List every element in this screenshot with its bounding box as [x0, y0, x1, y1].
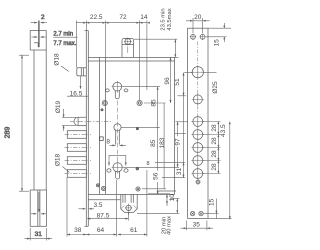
top tab circle: [125, 39, 131, 45]
top latch tab: [122, 38, 134, 57]
dim 35: [187, 227, 207, 229]
svg-text:43.5: 43.5: [220, 124, 227, 137]
5 bolt holes: [193, 117, 203, 179]
dim 10: [148, 193, 170, 195]
svg-text:Ø25: Ø25: [212, 81, 219, 94]
follower dim 8: [110, 144, 127, 146]
case rect: [88, 56, 174, 58]
side view faceplate line: [38, 21, 40, 48]
svg-text:10: 10: [169, 194, 176, 202]
side view bottom faceplate pair: [38, 190, 40, 226]
svg-text:183: 183: [159, 137, 166, 148]
follower: [114, 124, 121, 131]
svg-text:15: 15: [209, 198, 216, 206]
ext follower centerline: [121, 126, 159, 128]
svg-text:23.5 min: 23.5 min: [161, 8, 167, 30]
svg-text:16.5: 16.5: [70, 90, 83, 97]
keyhole cylinder 1: [112, 81, 124, 99]
dim 97 line: [177, 122, 179, 136]
dim 51: [184, 72, 192, 74]
svg-text:56: 56: [152, 172, 159, 180]
strike plate dims: [178, 18, 232, 230]
svg-text:2: 2: [41, 14, 45, 21]
big hole: [192, 67, 203, 78]
svg-text:97: 97: [174, 138, 181, 146]
ext y=103 screw row: [144, 102, 166, 104]
svg-text:51: 51: [174, 78, 181, 86]
ext cyl2 centerline: [124, 166, 179, 168]
dim chain 85/85/56 line: [157, 87, 159, 171]
svg-text:85: 85: [150, 99, 157, 107]
screw dot right of follower: [136, 128, 138, 130]
svg-text:7.7 max.: 7.7 max.: [53, 41, 76, 47]
dim 23.5min 43.5max: [134, 39, 178, 57]
ext cyl1 centerline: [123, 86, 160, 88]
bottom tab: [121, 194, 137, 212]
svg-text:20: 20: [194, 14, 202, 21]
top screw holes: [191, 34, 196, 39]
svg-text:Ø19: Ø19: [55, 100, 62, 113]
label square 8: [100, 137, 104, 141]
label 2.7min/7.7max: [53, 36, 77, 38]
dim 28 chain: [217, 122, 219, 174]
bottom slot screws: [190, 211, 194, 215]
dim Ø25 leader: [204, 71, 217, 73]
svg-text:72: 72: [119, 14, 127, 21]
svg-text:Ø18: Ø18: [54, 53, 61, 66]
bottom small screws: [96, 184, 99, 187]
svg-text:2.7 min: 2.7 min: [53, 31, 73, 37]
svg-text:35: 35: [193, 221, 201, 228]
bottom chain line: [67, 234, 117, 236]
side view outline: [30, 31, 46, 227]
hole2: [193, 95, 202, 104]
cyl2 bracket: [108, 155, 127, 165]
dim 20min/40max line: [176, 198, 178, 213]
dim 31 bottom: [25, 192, 53, 241]
svg-text:Ø18: Ø18: [55, 153, 62, 166]
cylinder protrusion box top: [77, 68, 87, 76]
strike plate: [188, 28, 208, 218]
svg-text:38: 38: [74, 227, 82, 234]
svg-text:8: 8: [147, 161, 150, 167]
svg-text:43.5max: 43.5max: [167, 8, 173, 30]
dim 289: [19, 55, 29, 191]
dim 3.5: [79, 208, 86, 210]
ext y=121.8: [176, 121, 188, 123]
svg-text:31: 31: [176, 168, 183, 176]
ext y=188.8: [142, 188, 166, 190]
svg-text:40 max: 40 max: [166, 216, 172, 235]
svg-text:28: 28: [211, 150, 218, 158]
svg-text:3.5: 3.5: [94, 202, 103, 209]
dim 2 top: [31, 22, 48, 24]
small bottom circle: [196, 180, 200, 184]
dim 16.5: [67, 76, 88, 96]
svg-text:64: 64: [97, 227, 105, 234]
inner flange line: [99, 57, 101, 194]
svg-text:28: 28: [211, 163, 218, 171]
svg-text:15: 15: [213, 39, 220, 47]
dim arrows 2.7/7.7 inside box: [32, 36, 46, 38]
svg-text:22.5: 22.5: [90, 14, 103, 21]
ovals beside cylinder2: [107, 169, 111, 172]
center dashed axis: [116, 101, 118, 162]
keyhole cylinder 2: [112, 162, 124, 180]
right side dims of lock: [121, 57, 187, 213]
svg-text:61: 61: [130, 227, 138, 234]
dim 87.5: [87, 218, 128, 220]
svg-text:31: 31: [35, 231, 43, 238]
svg-text:28: 28: [211, 137, 218, 145]
screw dot right of cyl2: [136, 167, 139, 170]
dim 96: [170, 57, 172, 103]
bolt centerlines dash-dot: [65, 121, 113, 173]
screw boss left: [102, 100, 107, 105]
svg-text:28: 28: [211, 124, 218, 132]
front view main: [65, 31, 177, 227]
oval holes beside cylinder1: [105, 89, 109, 92]
svg-text:8: 8: [106, 138, 110, 145]
svg-text:87.5: 87.5: [97, 212, 110, 219]
svg-text:96: 96: [164, 77, 171, 85]
dashed axis: [197, 42, 199, 180]
dim 31 line: [183, 162, 185, 177]
dim 20: [193, 20, 203, 22]
top dimension chain: [76, 21, 150, 101]
dim 15 top: [208, 27, 231, 29]
screw boss right: [137, 100, 142, 105]
dim 43.5 line: [229, 122, 231, 220]
dim 15 bottom: [215, 199, 217, 220]
svg-text:289: 289: [5, 127, 12, 139]
bottom dims: [67, 170, 147, 237]
svg-text:14: 14: [140, 14, 148, 21]
dim 183 line: [163, 103, 165, 189]
svg-text:85: 85: [150, 139, 157, 147]
latch bolt D-nose: [74, 117, 86, 125]
ext y=133.5: [175, 133, 186, 135]
small dot: [101, 109, 103, 111]
side view notch: [34, 43, 38, 47]
faceplate strip: [85, 31, 87, 227]
bolts protruding left: [67, 131, 86, 178]
